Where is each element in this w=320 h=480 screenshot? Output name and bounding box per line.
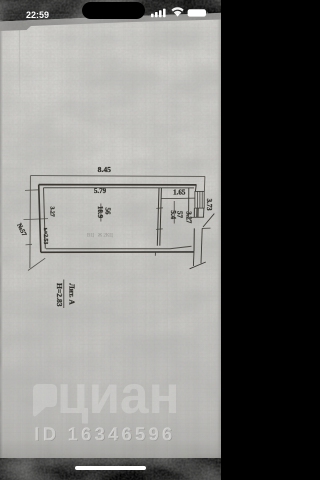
right wall outer [194, 185, 197, 191]
svg-text:8.45: 8.45 [98, 165, 111, 174]
paper grain [0, 13, 221, 458]
svg-text:5.4: 5.4 [169, 210, 177, 219]
tick middle-left (long) [24, 219, 49, 220]
battery icon [188, 9, 206, 16]
label Lit.A / H=2.83 rotated [63, 280, 65, 309]
darker left paper edge [0, 20, 3, 458]
top wall [39, 184, 197, 186]
svg-text:ID 16346596: ID 16346596 [34, 423, 175, 444]
partition ticks [156, 207, 163, 209]
home indicator [75, 466, 146, 470]
wifi icon [175, 13, 179, 16]
dimension line under 1.65 in room 57 [162, 197, 196, 200]
leader to Lit.A [28, 258, 45, 270]
cellular signal bars [151, 14, 154, 18]
photo of floor-plan paper [0, 0, 221, 458]
svg-text:3.27: 3.27 [48, 206, 54, 216]
faint grid of the graph paper [0, 14, 221, 458]
window shaft top-right [195, 191, 204, 208]
status icons [151, 7, 208, 17]
svg-text:ВЦ Ж 2КЦ: ВЦ Ж 2КЦ [87, 234, 113, 239]
vestibule below bottom wall [192, 251, 195, 266]
room 56 label: 56/18.9 rotated [100, 204, 102, 222]
left wall [39, 185, 41, 253]
svg-text:Н=2.83: Н=2.83 [55, 283, 64, 307]
scanner streaks on paper [0, 14, 221, 458]
svg-text:3.73: 3.73 [205, 199, 212, 212]
status time [26, 10, 66, 20]
partition wall 56/57 [157, 188, 159, 246]
door jambs right [189, 216, 205, 218]
room 57 label: 57/5.4 rotated [173, 201, 175, 224]
tick lower-left [26, 243, 33, 246]
svg-text:ь=2.53: ь=2.53 [42, 228, 48, 245]
svg-text:3.27: 3.27 [185, 211, 192, 223]
right wall inner (door gap 217.5-232) [188, 188, 190, 218]
left dimension line [29, 176, 32, 268]
svg-text:1.65: 1.65 [173, 188, 186, 196]
door leaf right [203, 214, 214, 227]
svg-text:18.9: 18.9 [96, 206, 104, 219]
cian watermark [33, 365, 180, 425]
right dimension line 3.73 [203, 176, 206, 191]
threshold diagonal [190, 262, 206, 269]
svg-text:5.79: 5.79 [94, 187, 107, 195]
svg-text:циан: циан [57, 365, 180, 425]
svg-text:Лит. А: Лит. А [68, 283, 76, 305]
dimension line 8.45 (top) [31, 175, 205, 178]
paper crease top-left [19, 22, 20, 96]
table surface band above paper [0, 0, 221, 40]
partition stub below bottom wall [154, 253, 156, 256]
dynamic island pill [82, 2, 145, 19]
darker right paper edge [217, 12, 221, 458]
bottom wall [41, 251, 194, 253]
tick top-left [25, 189, 39, 192]
right wall shaft edge down to door [203, 208, 205, 217]
